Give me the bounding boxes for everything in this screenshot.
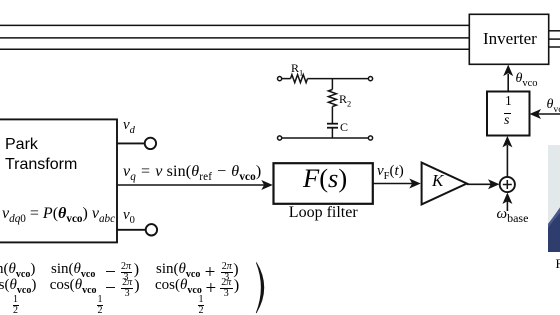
label matrix row2 entry2 cos(theta_vco - 2pi/3)	[0, 0, 1, 1]
node RC filter input terminal top-left	[278, 77, 282, 81]
label matrix row3 half 1	[13, 295, 19, 314]
matrix closing parenthesis	[256, 263, 264, 314]
wire v_0 output stub	[117, 229, 146, 231]
label matrix row1 entry2 sin(theta_vco - 2pi/3)	[0, 0, 1, 1]
wire inverter output stub c	[549, 46, 560, 48]
label theta_vco	[516, 72, 538, 86]
wire from gain K to summing junction with arrowhead	[467, 179, 500, 189]
wire three-phase bus line b	[0, 37, 469, 39]
wire from summing junction up into integrator with arrowhead	[502, 136, 512, 177]
label matrix row1 entry1 sin(theta_vco) cut	[0, 262, 35, 277]
wire theta_vco from integrator to inverter with arrowhead	[503, 65, 513, 92]
wire v_d output stub	[117, 142, 145, 144]
label F(s)	[303, 165, 347, 192]
label K	[432, 172, 443, 189]
label R1	[291, 62, 303, 74]
wire v_q from Park transform to loop filter with arrowhead	[117, 180, 273, 190]
decorative thumbnail strip right edge	[548, 145, 560, 252]
node RC filter bottom-right terminal	[368, 136, 372, 140]
wire omega_base input from below into summing junction with arrowhead	[502, 193, 512, 212]
label v_d	[123, 118, 135, 133]
label Park Transform	[5, 135, 77, 176]
label theta_v (cut at edge)	[547, 98, 560, 112]
wire from R2 to capacitor C	[331, 107, 333, 124]
wire three-phase bus line a	[0, 24, 469, 26]
wire junction down to resistor R2	[331, 79, 333, 90]
node v_d terminal	[145, 138, 156, 149]
label 1/s inside integrator	[0, 0, 1, 1]
label matrix row1 entry3 sin(theta_vco + 2pi/3)	[0, 0, 1, 1]
label matrix row3 half 2	[97, 295, 103, 314]
node RC filter bottom-left terminal	[278, 136, 282, 140]
node v_0 terminal	[146, 224, 157, 235]
block loop filter F(s)	[274, 163, 373, 204]
wire from loop filter F(s) to gain K with arrowhead	[373, 179, 421, 189]
label Loop filter	[289, 205, 358, 221]
wire from capacitor C to bottom rail	[331, 128, 333, 138]
wire inverter output stub b	[549, 38, 560, 40]
node RC filter output terminal top-right	[368, 77, 372, 81]
wire three-phase bus line c	[0, 48, 469, 50]
block Park Transform	[0, 119, 117, 242]
wire theta_v input from right edge into integrator with arrowhead	[530, 109, 560, 119]
wire RC filter bottom rail	[282, 137, 369, 139]
block integrator 1/s U1	[487, 92, 530, 136]
wire inverter output stub a	[549, 30, 560, 32]
block Inverter	[469, 14, 548, 64]
label matrix row3 half 3	[198, 295, 204, 314]
label v_F(t)	[377, 164, 404, 179]
summing junction S1	[500, 177, 515, 192]
label matrix row2 entry1 cos(theta_vco) cut	[0, 278, 36, 293]
resistor R2	[328, 90, 336, 107]
label v_dq0 equation	[2, 206, 115, 222]
label matrix row2 entry3 cos(theta_vco + 2pi/3)	[0, 0, 1, 1]
wire from R1 to top-right terminal	[308, 78, 369, 80]
resistor R1	[291, 75, 308, 83]
capacitor C	[327, 124, 338, 128]
gain K triangle	[422, 163, 467, 205]
wire from input terminal to resistor R1	[282, 78, 291, 80]
label omega_base	[497, 207, 529, 222]
label C	[340, 121, 348, 133]
label figure caption F (cut at edge)	[556, 257, 560, 270]
label v_0	[123, 208, 135, 223]
label R2	[339, 93, 351, 105]
label v_q equation	[123, 164, 261, 180]
label Inverter	[483, 30, 537, 47]
